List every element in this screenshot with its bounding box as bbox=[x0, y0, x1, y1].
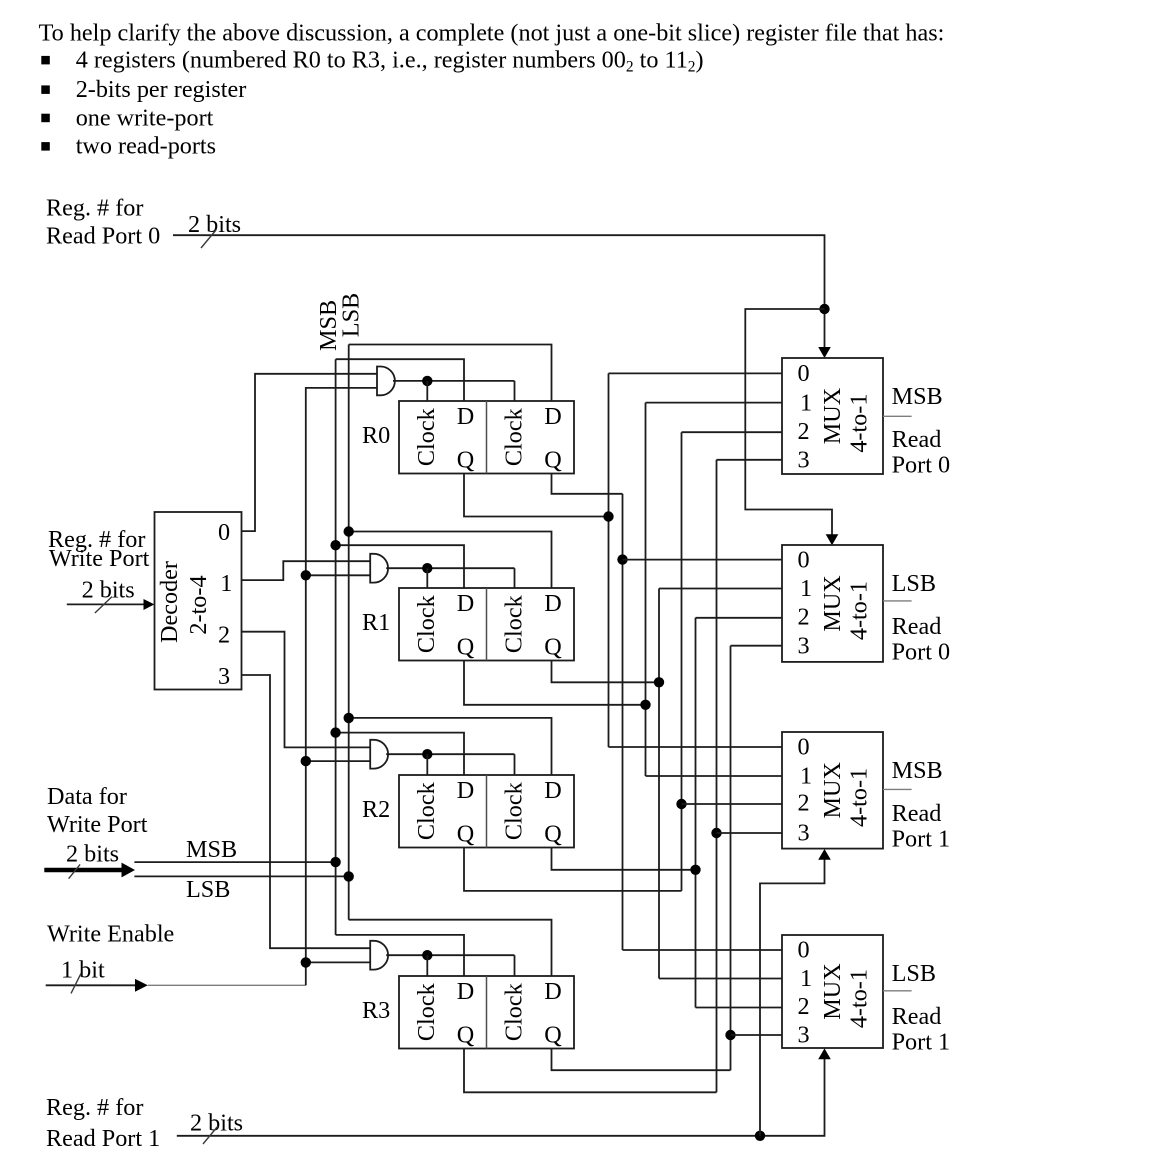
wire R2 LSB Q to MUX U2 input 2 bbox=[696, 617, 783, 619]
AND gate G3 (write clock R3) bbox=[370, 941, 388, 970]
svg-text:Q: Q bbox=[544, 634, 562, 661]
svg-text:D: D bbox=[544, 777, 561, 804]
svg-text:Q: Q bbox=[457, 447, 475, 474]
register R2 flip-flop pair box bbox=[399, 775, 574, 848]
svg-text:LSB: LSB bbox=[186, 876, 230, 903]
svg-text:1: 1 bbox=[800, 763, 812, 790]
svg-text:Write Port: Write Port bbox=[49, 545, 150, 572]
svg-text:3: 3 bbox=[798, 447, 810, 474]
svg-text:4-to-1: 4-to-1 bbox=[846, 581, 873, 640]
svg-text:Q: Q bbox=[544, 1022, 562, 1049]
junction R3 LSB Q branch bbox=[725, 1030, 735, 1040]
junction clock R3 bbox=[422, 950, 432, 960]
svg-text:1: 1 bbox=[220, 570, 232, 597]
svg-text:D: D bbox=[544, 978, 561, 1005]
register R1 divider bbox=[486, 588, 488, 661]
svg-text:D: D bbox=[457, 978, 474, 1005]
svg-text:MSB: MSB bbox=[892, 383, 943, 410]
svg-text:MUX: MUX bbox=[819, 762, 846, 819]
svg-text:To help clarify the above disc: To help clarify the above discussion, a … bbox=[39, 20, 945, 47]
svg-text:MSB: MSB bbox=[892, 757, 943, 784]
register R3 divider bbox=[486, 976, 488, 1049]
arrowhead into MUX U1 select bbox=[818, 347, 831, 358]
mux U1 box bbox=[782, 358, 883, 474]
svg-text:3: 3 bbox=[798, 632, 810, 659]
junction MSB data/R1 bbox=[330, 540, 340, 550]
wire R1 LSB Q out bbox=[552, 661, 660, 683]
svg-text:4-to-1: 4-to-1 bbox=[846, 768, 873, 827]
svg-text:2: 2 bbox=[798, 604, 810, 631]
wire R1 MSB Q to MUX U3 input 1 bbox=[646, 775, 783, 777]
wire read-port-0 select bbox=[173, 235, 825, 348]
wire clock drop R1 MSB FF bbox=[426, 568, 428, 588]
svg-text:Clock: Clock bbox=[413, 982, 440, 1041]
wire R1 MSB Q vertical bbox=[645, 403, 647, 776]
junction R2 MSB Q branch bbox=[676, 799, 686, 809]
junction MSB data/R2 bbox=[330, 727, 340, 737]
wire MSB data to R2 D bbox=[336, 733, 464, 775]
wire write-enable continuation (thin) bbox=[148, 984, 306, 986]
svg-text:MSB: MSB bbox=[186, 836, 237, 863]
wire R2 LSB Q out bbox=[552, 848, 696, 870]
register R1 flip-flop pair box bbox=[399, 588, 574, 661]
svg-text:4-to-1: 4-to-1 bbox=[846, 394, 873, 453]
wire WE branch to AND gate G3 bbox=[306, 961, 371, 963]
bus slash (read port 1) bbox=[203, 1126, 218, 1144]
svg-text:3: 3 bbox=[798, 820, 810, 847]
svg-text:D: D bbox=[457, 590, 474, 617]
wire clock drop R0 MSB FF bbox=[426, 381, 428, 401]
decoder U5 box bbox=[155, 512, 242, 690]
wire data bus (thick) bbox=[44, 868, 122, 873]
arrowhead into MUX U3 select bbox=[818, 849, 831, 860]
wire MSB data vertical bbox=[335, 359, 337, 935]
svg-text:Q: Q bbox=[544, 821, 562, 848]
wire R0 MSB Q vertical bbox=[608, 373, 610, 747]
svg-text:Write Enable: Write Enable bbox=[47, 921, 174, 948]
wire R0 MSB Q to MUX U1 input 0 bbox=[609, 372, 783, 374]
wire R1 LSB Q vertical bbox=[658, 589, 660, 979]
bullet square 1 bbox=[41, 56, 50, 65]
svg-text:R1: R1 bbox=[362, 609, 390, 636]
svg-text:1: 1 bbox=[800, 965, 812, 992]
svg-text:3: 3 bbox=[218, 663, 230, 690]
junction WE/G1 bbox=[301, 570, 311, 580]
junction LSB data/R2 bbox=[344, 713, 354, 723]
svg-text:Q: Q bbox=[457, 821, 475, 848]
svg-text:Write Port: Write Port bbox=[47, 811, 148, 838]
svg-text:Q: Q bbox=[457, 634, 475, 661]
wire clock drop R2 LSB FF bbox=[514, 754, 516, 775]
svg-text:2 bits: 2 bits bbox=[188, 211, 241, 238]
wire data LSB to vertical bbox=[134, 875, 348, 877]
svg-text:Reg. # for: Reg. # for bbox=[46, 1094, 143, 1121]
svg-text:Clock: Clock bbox=[413, 594, 440, 653]
svg-text:3: 3 bbox=[798, 1022, 810, 1049]
wire R2 MSB Q out bbox=[464, 848, 682, 891]
svg-text:LSB: LSB bbox=[338, 293, 365, 337]
arrowhead into decoder bbox=[144, 599, 155, 610]
junction read-port-1 select branch bbox=[755, 1131, 765, 1141]
junction R1 LSB Q branch bbox=[654, 677, 664, 687]
wire U3 output stub bbox=[883, 788, 912, 790]
svg-text:2-to-4: 2-to-4 bbox=[185, 575, 212, 634]
svg-text:0: 0 bbox=[798, 734, 810, 761]
svg-text:Clock: Clock bbox=[500, 781, 527, 840]
wire G3 output clock line bbox=[386, 954, 514, 956]
wire R1 LSB Q to MUX U4 input 1 bbox=[659, 978, 782, 980]
junction clock R0 bbox=[422, 376, 432, 386]
svg-text:1: 1 bbox=[800, 389, 812, 416]
mux U4 box bbox=[782, 935, 883, 1048]
wire LSB data to R0 D bbox=[349, 345, 552, 402]
junction R2 LSB Q branch bbox=[690, 865, 700, 875]
wire U1 output stub bbox=[883, 415, 912, 417]
bus slash (write port) bbox=[95, 597, 112, 613]
svg-text:Clock: Clock bbox=[500, 594, 527, 653]
svg-text:2 bits: 2 bits bbox=[190, 1110, 243, 1137]
wire read-port-1 select bbox=[177, 1059, 825, 1136]
svg-text:D: D bbox=[544, 403, 561, 430]
svg-text:LSB: LSB bbox=[892, 570, 936, 597]
wire WE branch to AND gate G1 bbox=[306, 574, 371, 576]
wire WE branch to AND gate G2 bbox=[306, 760, 371, 762]
wire write-enable riser to AND gate G0 bbox=[306, 388, 377, 985]
wire U4 output stub bbox=[883, 990, 912, 992]
wire R3 LSB Q to MUX U4 input 3 bbox=[731, 1034, 783, 1036]
wire clock drop R2 MSB FF bbox=[426, 754, 428, 775]
wire R2 MSB Q vertical bbox=[681, 432, 683, 891]
bullet square 3 bbox=[41, 114, 50, 123]
svg-text:0: 0 bbox=[218, 519, 230, 546]
svg-text:0: 0 bbox=[798, 937, 810, 964]
svg-text:Read Port 1: Read Port 1 bbox=[46, 1125, 160, 1152]
arrowhead into MUX U2 select bbox=[826, 534, 839, 545]
wire select branch to MUX U3 bbox=[760, 859, 825, 1135]
svg-text:one write-port: one write-port bbox=[76, 104, 214, 131]
wire decoder out3 to AND gate G3 bbox=[242, 675, 371, 948]
svg-text:R2: R2 bbox=[362, 796, 390, 823]
svg-text:0: 0 bbox=[798, 360, 810, 387]
register R2 divider bbox=[486, 775, 488, 848]
svg-text:1 bit: 1 bit bbox=[61, 957, 105, 984]
wire data MSB to vertical bbox=[134, 861, 335, 863]
svg-text:D: D bbox=[544, 590, 561, 617]
svg-text:2: 2 bbox=[798, 993, 810, 1020]
wire MSB data to R1 D bbox=[336, 545, 464, 588]
wire LSB data to R1 D bbox=[349, 532, 552, 589]
bus slash (read port 0) bbox=[201, 230, 216, 248]
wire LSB data to R2 D bbox=[349, 718, 552, 775]
svg-text:Clock: Clock bbox=[500, 407, 527, 466]
junction R0 LSB Q branch bbox=[617, 554, 627, 564]
wire MSB data to R3 D bbox=[336, 935, 464, 976]
svg-text:Read: Read bbox=[892, 800, 942, 827]
junction R3 MSB Q branch bbox=[711, 828, 721, 838]
wire R3 MSB Q out bbox=[464, 1049, 717, 1093]
wire R0 LSB Q out bbox=[552, 474, 623, 494]
bullet square 2 bbox=[41, 85, 50, 94]
arrowhead data bus bbox=[122, 863, 136, 878]
svg-text:MUX: MUX bbox=[819, 387, 846, 444]
wire R2 MSB Q to MUX U3 input 2 bbox=[682, 803, 783, 805]
svg-text:Q: Q bbox=[544, 447, 562, 474]
svg-text:two read-ports: two read-ports bbox=[76, 133, 216, 160]
bus slash (write enable) bbox=[71, 973, 81, 993]
svg-text:Read: Read bbox=[892, 1003, 942, 1030]
svg-text:Clock: Clock bbox=[413, 781, 440, 840]
wire R1 MSB Q out bbox=[464, 661, 646, 705]
svg-text:D: D bbox=[457, 777, 474, 804]
AND gate G1 (write clock R1) bbox=[370, 554, 388, 583]
wire select branch to MUX U2 bbox=[745, 309, 832, 535]
wire R0 MSB Q to MUX U3 input 0 bbox=[609, 746, 783, 748]
wire R2 LSB Q vertical bbox=[695, 618, 697, 1008]
svg-text:R0: R0 bbox=[362, 422, 390, 449]
wire clock drop R1 LSB FF bbox=[514, 568, 516, 588]
wire write-port reg# input bbox=[67, 603, 144, 605]
wire R3 MSB Q to MUX U1 input 3 bbox=[717, 459, 783, 461]
bus slash (data) bbox=[69, 864, 81, 878]
mux U2 box bbox=[782, 545, 883, 662]
wire R3 LSB Q vertical bbox=[730, 646, 732, 1070]
AND gate G0 (write clock R0) bbox=[377, 367, 395, 396]
wire R2 LSB Q to MUX U4 input 2 bbox=[696, 1007, 783, 1009]
junction data LSB bbox=[344, 871, 354, 881]
wire LSB data to R3 D bbox=[349, 920, 552, 976]
wire R3 MSB Q vertical bbox=[716, 460, 718, 1093]
svg-text:Read: Read bbox=[892, 613, 942, 640]
wire G2 output clock line bbox=[386, 753, 514, 755]
svg-text:Port 0: Port 0 bbox=[892, 639, 950, 666]
svg-text:Read Port 0: Read Port 0 bbox=[46, 223, 160, 250]
wire LSB data vertical bbox=[348, 345, 350, 920]
junction WE/G2 bbox=[301, 756, 311, 766]
arrowhead into MUX U4 select bbox=[818, 1048, 831, 1059]
svg-text:Port 0: Port 0 bbox=[892, 452, 950, 479]
svg-text:Read: Read bbox=[892, 426, 942, 453]
svg-text:Clock: Clock bbox=[413, 407, 440, 466]
wire R0 MSB Q out bbox=[464, 474, 609, 517]
mux U3 box bbox=[782, 732, 883, 849]
register R3 flip-flop pair box bbox=[399, 976, 574, 1049]
wire R2 MSB Q to MUX U1 input 2 bbox=[682, 431, 783, 433]
junction clock R1 bbox=[422, 563, 432, 573]
svg-text:1: 1 bbox=[800, 575, 812, 602]
junction data MSB bbox=[330, 857, 340, 867]
svg-text:2 bits: 2 bits bbox=[66, 841, 119, 868]
wire clock drop R0 LSB FF bbox=[514, 381, 516, 401]
svg-text:0: 0 bbox=[798, 546, 810, 573]
svg-text:2-bits per register: 2-bits per register bbox=[76, 76, 247, 103]
wire clock drop R3 LSB FF bbox=[514, 955, 516, 976]
wire G1 output clock line bbox=[386, 567, 514, 569]
wire R0 LSB Q to MUX U4 input 0 bbox=[623, 949, 783, 951]
svg-text:2: 2 bbox=[798, 418, 810, 445]
junction read-port-0 select branch bbox=[819, 304, 829, 314]
wire R1 LSB Q to MUX U2 input 1 bbox=[659, 588, 782, 590]
wire G0 output clock line bbox=[393, 380, 515, 382]
wire U2 output stub bbox=[883, 600, 912, 602]
svg-text:Clock: Clock bbox=[500, 982, 527, 1041]
register R0 flip-flop pair box bbox=[399, 401, 574, 474]
wire R3 LSB Q out bbox=[552, 1049, 731, 1071]
junction R0 MSB Q branch bbox=[603, 511, 613, 521]
wire decoder out1 to AND gate G1 bbox=[242, 561, 371, 580]
svg-text:MUX: MUX bbox=[819, 963, 846, 1020]
svg-text:Q: Q bbox=[457, 1022, 475, 1049]
wire R1 MSB Q to MUX U1 input 1 bbox=[646, 402, 783, 404]
svg-text:4-to-1: 4-to-1 bbox=[846, 969, 873, 1028]
wire R0 LSB Q vertical bbox=[622, 494, 624, 950]
junction R1 MSB Q branch bbox=[640, 700, 650, 710]
arrowhead write enable bbox=[135, 979, 148, 992]
svg-text:Data for: Data for bbox=[47, 783, 127, 810]
svg-text:MUX: MUX bbox=[819, 575, 846, 632]
wire R3 LSB Q to MUX U2 input 3 bbox=[731, 645, 783, 647]
svg-text:Decoder: Decoder bbox=[156, 561, 183, 643]
svg-text:4 registers (numbered R0 to R3: 4 registers (numbered R0 to R3, i.e., re… bbox=[76, 47, 704, 76]
svg-text:Port 1: Port 1 bbox=[892, 826, 950, 853]
bullet square 4 bbox=[41, 142, 50, 151]
wire clock drop R3 MSB FF bbox=[426, 955, 428, 976]
svg-text:LSB: LSB bbox=[892, 960, 936, 987]
svg-text:D: D bbox=[457, 403, 474, 430]
svg-text:2: 2 bbox=[798, 790, 810, 817]
wire MSB data to R0 D bbox=[336, 359, 464, 401]
junction LSB data/R1 bbox=[344, 526, 354, 536]
wire write-enable input bbox=[46, 984, 135, 986]
svg-text:R3: R3 bbox=[362, 997, 390, 1024]
wire decoder out0 to AND gate G0 bbox=[242, 374, 378, 531]
register R0 divider bbox=[486, 401, 488, 474]
svg-text:Port 1: Port 1 bbox=[892, 1029, 950, 1056]
svg-text:2: 2 bbox=[218, 622, 230, 649]
svg-text:Reg. # for: Reg. # for bbox=[46, 195, 143, 222]
wire R0 LSB Q to MUX U2 input 0 bbox=[623, 559, 783, 561]
junction clock R2 bbox=[422, 749, 432, 759]
wire R3 MSB Q to MUX U3 input 3 bbox=[717, 832, 783, 834]
wire decoder out2 to AND gate G2 bbox=[242, 632, 371, 748]
junction WE/G3 bbox=[301, 957, 311, 967]
AND gate G2 (write clock R2) bbox=[370, 740, 388, 769]
